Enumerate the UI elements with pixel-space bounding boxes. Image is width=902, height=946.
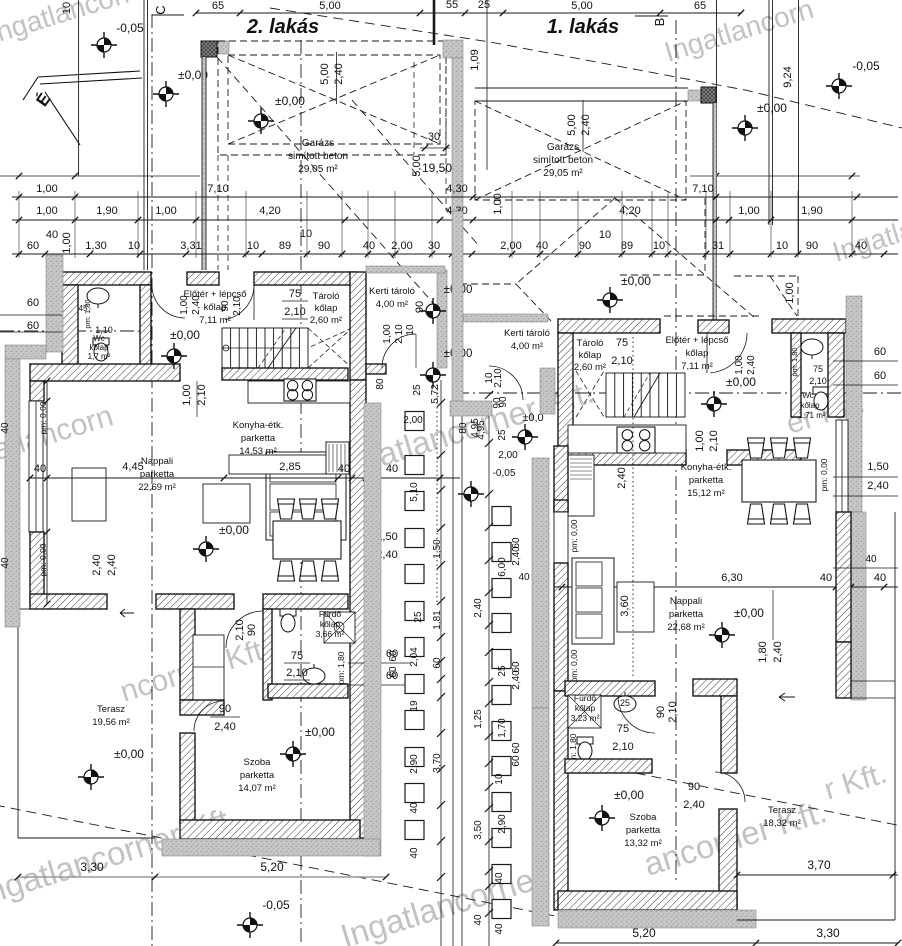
svg-text:40: 40 (46, 229, 58, 241)
svg-text:25: 25 (620, 698, 630, 708)
svg-text:kőlap: kőlap (579, 350, 602, 361)
elevation marker (78, 764, 104, 790)
svg-text:19: 19 (409, 700, 420, 712)
unit2 left wall upper (30, 381, 44, 401)
unit1 kerti gray top (463, 314, 548, 322)
svg-text:pm: 0,00: pm: 0,00 (569, 649, 579, 682)
svg-text:2,85: 2,85 (279, 461, 300, 473)
svg-text:1,00: 1,00 (492, 193, 504, 214)
svg-text:5,72: 5,72 (430, 384, 441, 404)
svg-text:2,10: 2,10 (286, 667, 307, 679)
garage 1 roof overhang dashed lines (516, 198, 615, 284)
svg-text:5,00: 5,00 (319, 0, 340, 12)
garage 1 pillar strip down (712, 103, 714, 320)
svg-text:kőlap: kőlap (575, 703, 596, 713)
svg-text:10: 10 (653, 240, 665, 252)
svg-text:3,66 m²: 3,66 m² (316, 629, 345, 639)
svg-text:90: 90 (219, 703, 231, 715)
svg-text:15,12 m²: 15,12 m² (687, 488, 725, 499)
elevation marker (701, 391, 727, 417)
svg-text:75: 75 (617, 723, 629, 735)
svg-text:25: 25 (478, 0, 490, 11)
svg-text:90: 90 (806, 240, 818, 252)
unit1 sofa (572, 558, 614, 644)
svg-text:55: 55 (446, 0, 458, 11)
elevation marker (826, 73, 852, 99)
unit2 kitchen island (229, 455, 333, 474)
unit2 WC right wall (140, 285, 151, 368)
plot double line x144 (143, 0, 145, 270)
svg-text:60: 60 (27, 320, 39, 332)
dimension row 1 (12, 196, 898, 198)
unit1 left wall gray (532, 458, 549, 708)
svg-text:2,00: 2,00 (403, 415, 423, 426)
svg-text:-0,05: -0,05 (262, 898, 290, 912)
garage 1 corner pillar (701, 87, 716, 103)
dimension row 0 right piece (690, 175, 860, 177)
elevation marker (709, 622, 735, 648)
svg-text:22,68 m²: 22,68 m² (667, 622, 705, 633)
elevation marker (458, 481, 484, 507)
svg-text:30: 30 (428, 240, 440, 252)
unit2 wall below WC (30, 364, 180, 381)
svg-text:2,40: 2,40 (511, 670, 522, 690)
svg-text:Nappali: Nappali (141, 456, 173, 467)
unit2 insulation right (364, 403, 381, 856)
top thick mark (433, 0, 436, 45)
unit2 fridge (326, 442, 349, 474)
svg-text:2,40: 2,40 (580, 114, 592, 135)
svg-text:1,00: 1,00 (734, 355, 745, 375)
svg-text:parketta: parketta (669, 609, 704, 620)
svg-text:40: 40 (494, 872, 505, 884)
svg-text:31: 31 (712, 240, 724, 252)
svg-text:4,95: 4,95 (476, 420, 487, 440)
svg-text:1,09: 1,09 (469, 49, 481, 70)
svg-text:-0,05: -0,05 (493, 468, 516, 479)
garage 2 corner pillar (201, 41, 217, 57)
unit1 gray jog (540, 368, 555, 414)
boundary line top diagonal (270, 8, 902, 128)
elevation marker (280, 741, 306, 767)
svg-text:parketta: parketta (241, 433, 276, 444)
svg-text:10: 10 (247, 240, 259, 252)
unit2 dining chairs top (278, 499, 295, 519)
svg-text:pm: 1,80: pm: 1,80 (336, 651, 346, 684)
elevation marker (237, 912, 263, 938)
svg-text:10: 10 (494, 773, 505, 785)
unit1 kerti door arc (489, 366, 523, 400)
svg-text:2,40: 2,40 (473, 598, 484, 618)
svg-text:10: 10 (128, 240, 140, 252)
svg-text:kőlap: kőlap (89, 343, 109, 352)
unit2 bath bottom wall (268, 684, 348, 698)
unit2 stair block right wall (350, 272, 366, 380)
svg-text:Konyha-étk.: Konyha-étk. (233, 420, 284, 431)
unit1 right wall upper (828, 333, 844, 417)
unit1 bedroom door (715, 772, 745, 802)
svg-text:1,71 m²: 1,71 m² (798, 411, 825, 420)
svg-text:5,00: 5,00 (571, 0, 592, 12)
svg-text:simított beton: simított beton (533, 155, 593, 166)
unit2 stair arrow (222, 347, 300, 349)
svg-text:10: 10 (776, 240, 788, 252)
svg-text:1,00: 1,00 (738, 205, 759, 217)
svg-text:2,04: 2,04 (409, 647, 420, 667)
unit2 bath left wall (263, 609, 272, 700)
unit1 stair hall bottom wall (558, 450, 686, 465)
unit2 bottom wall right segment (156, 594, 234, 609)
svg-text:pm: 0,00: pm: 0,00 (38, 543, 48, 576)
unit2 top wall WC segment (62, 272, 151, 285)
svg-text:9,24: 9,24 (782, 66, 794, 87)
vertical line x716 (716, 0, 718, 255)
svg-text:Előtér + lépcső: Előtér + lépcső (665, 335, 728, 346)
svg-text:6,30: 6,30 (721, 572, 742, 584)
svg-text:7,11 m²: 7,11 m² (199, 315, 231, 326)
svg-text:Tároló: Tároló (313, 291, 340, 302)
svg-text:90: 90 (688, 781, 700, 793)
svg-text:40: 40 (536, 240, 548, 252)
svg-text:2,10: 2,10 (611, 355, 632, 367)
svg-text:25: 25 (497, 429, 508, 441)
unit1 roof overhang dashed above wall (664, 315, 760, 317)
svg-text:3,50: 3,50 (473, 820, 484, 840)
svg-text:±0,00: ±0,00 (726, 375, 756, 389)
unit2 bottom wall left segment (30, 594, 107, 609)
svg-text:90: 90 (220, 300, 231, 312)
svg-text:4,20: 4,20 (619, 205, 640, 217)
svg-text:5,00: 5,00 (319, 63, 331, 84)
unit2 top wall entry segment (187, 272, 219, 285)
svg-text:2,40: 2,40 (214, 721, 235, 733)
svg-text:2,10: 2,10 (232, 296, 243, 316)
svg-text:80: 80 (375, 378, 386, 390)
svg-text:40: 40 (363, 240, 375, 252)
svg-text:3,23 m²: 3,23 m² (571, 713, 600, 723)
svg-text:kőlap: kőlap (686, 348, 709, 359)
svg-text:2,40: 2,40 (333, 63, 345, 84)
svg-text:1,70: 1,70 (497, 718, 508, 738)
svg-text:14,53 m²: 14,53 m² (239, 446, 277, 457)
svg-text:2,10: 2,10 (809, 376, 827, 386)
svg-text:kőlap: kőlap (315, 303, 338, 314)
svg-text:±0,00: ±0,00 (757, 101, 787, 115)
svg-text:4,45: 4,45 (122, 461, 143, 473)
svg-text:1,25: 1,25 (473, 709, 484, 729)
svg-text:Garázs: Garázs (302, 138, 334, 149)
unit2 hall closet (193, 635, 224, 700)
dim 1,09 (486, 0, 488, 170)
dimension row 4 (12, 253, 898, 255)
svg-text:75: 75 (616, 337, 628, 349)
svg-text:pm: 0,00: pm: 0,00 (569, 519, 579, 552)
unit1 left window (554, 512, 568, 563)
elevation marker (420, 298, 446, 324)
svg-text:1,50: 1,50 (867, 461, 888, 473)
svg-text:25: 25 (497, 665, 508, 677)
garage 2 dashed verticals to house (217, 155, 219, 270)
unit1 top wall left segment (558, 319, 660, 333)
party wall gray (443, 40, 463, 58)
unit1 bath toilet (577, 737, 593, 760)
svg-text:2,60 m²: 2,60 m² (310, 315, 342, 326)
svg-text:±0,00: ±0,00 (275, 94, 305, 108)
svg-text:75: 75 (289, 288, 301, 300)
unit2 WC fixtures (87, 288, 109, 308)
unit1 dining chairs bottom (748, 504, 765, 524)
svg-text:3,30: 3,30 (816, 926, 840, 940)
unit2 under-stair storage dashed (308, 328, 352, 368)
svg-text:2,10: 2,10 (394, 324, 405, 344)
svg-text:±0,00: ±0,00 (614, 788, 644, 802)
svg-text:40: 40 (409, 802, 420, 814)
unit2 sideboard (72, 468, 106, 521)
section line B vertical (675, 20, 677, 882)
unit1 living dotted divider (632, 337, 634, 679)
double vertical x769 (768, 0, 770, 225)
unit1 bath shower (568, 695, 601, 728)
svg-text:5,20: 5,20 (260, 860, 284, 874)
unit1 WC fixtures (801, 339, 823, 359)
svg-text:40: 40 (518, 572, 530, 583)
dimension row 2 (12, 219, 898, 221)
svg-text:3,70: 3,70 (807, 858, 831, 872)
svg-text:5,00: 5,00 (566, 114, 578, 135)
unit2 bath toilet (280, 609, 296, 632)
svg-text:89: 89 (279, 240, 291, 252)
section line C vertical (151, 14, 153, 946)
svg-text:90: 90 (579, 240, 591, 252)
unit2 insulation bottom (162, 839, 380, 856)
unit1 middle wall (693, 679, 737, 696)
svg-text:1,50: 1,50 (432, 539, 443, 559)
svg-text:Konyha-étk.: Konyha-étk. (681, 462, 732, 473)
svg-text:±0,00: ±0,00 (621, 274, 651, 288)
svg-text:1. lakás: 1. lakás (547, 16, 619, 38)
svg-text:22,69 m²: 22,69 m² (138, 482, 176, 493)
svg-text:2,10: 2,10 (284, 306, 305, 318)
svg-text:Wc: Wc (93, 334, 105, 343)
svg-text:40: 40 (0, 422, 11, 434)
svg-text:3,60: 3,60 (619, 595, 631, 616)
unit2 top wall middle segment (254, 272, 356, 285)
elevation marker (161, 343, 187, 369)
svg-text:60: 60 (27, 240, 39, 252)
unit2 kerti stub wall (366, 364, 386, 374)
unit1 dining table (742, 460, 816, 502)
bottom row right (556, 942, 898, 944)
svg-text:1,00: 1,00 (36, 183, 57, 195)
unit1 stair block left wall (558, 333, 573, 465)
svg-text:90: 90 (655, 706, 667, 718)
hedge column B (492, 507, 511, 526)
svg-text:14,07 m²: 14,07 m² (238, 783, 276, 794)
garage 1 dim 5,00 2,40 (582, 100, 584, 152)
svg-text:1,00: 1,00 (784, 282, 796, 303)
svg-text:29,05 m²: 29,05 m² (298, 164, 338, 175)
svg-text:10: 10 (599, 229, 611, 241)
svg-text:60: 60 (874, 346, 886, 358)
plot line vertical x78 (78, 0, 80, 176)
garage 2 dim 5,00 2,40 (336, 52, 338, 104)
garage 2 second diagonal (352, 100, 480, 247)
svg-text:kőlap: kőlap (320, 619, 341, 629)
middle chain ticks B (485, 391, 493, 399)
svg-text:parketta: parketta (626, 825, 661, 836)
garage 2 left wall lines (201, 57, 203, 270)
svg-text:Nappali: Nappali (670, 596, 702, 607)
svg-text:B: B (652, 18, 667, 27)
unit1 dim 3,70 (737, 874, 898, 876)
boundary line bottom diagonal (0, 805, 560, 917)
unit2 bath top wall (263, 594, 348, 609)
unit2 left wall lower (30, 532, 44, 604)
unit2 bedroom bottom wall (180, 820, 360, 839)
unit2 bedroom door arc (194, 701, 224, 731)
unit1 bath bottom wall (565, 759, 652, 773)
svg-text:5,10: 5,10 (409, 482, 420, 502)
unit1 side table (617, 582, 654, 632)
dimension row 0 left piece (0, 175, 200, 177)
svg-text:19,56 m²: 19,56 m² (92, 717, 130, 728)
svg-text:4,00 m²: 4,00 m² (511, 341, 543, 352)
unit1 terrace arrow (779, 693, 795, 701)
elevation marker (248, 108, 274, 134)
unit1 top wall right segment (772, 319, 846, 333)
unit2 dining table (273, 521, 341, 559)
svg-text:parketta: parketta (689, 475, 724, 486)
svg-text:2,10: 2,10 (667, 701, 679, 722)
unit1 row 6,30 (554, 586, 898, 588)
svg-text:2,40: 2,40 (91, 554, 103, 575)
garage 2 slab dashed rect (228, 55, 440, 144)
unit1 kitchen counter (568, 425, 686, 453)
unit1 left wall bottom part (554, 691, 568, 910)
svg-text:40: 40 (473, 914, 484, 926)
unit2 side table (203, 484, 250, 523)
unit1 insulation bottom (558, 910, 756, 928)
unit1 left wall (554, 446, 568, 512)
unit1 top wall middle pier (698, 320, 729, 333)
svg-text:pm: 0,00: pm: 0,00 (38, 401, 48, 434)
svg-text:65: 65 (212, 0, 224, 12)
svg-text:1,7 m²: 1,7 m² (88, 352, 111, 361)
svg-text:4,00 m²: 4,00 m² (376, 299, 408, 310)
svg-text:kőlap: kőlap (800, 401, 820, 410)
garage 2 roof diagonals (228, 55, 440, 144)
elevation marker (512, 424, 538, 450)
unit2 kerti top gray (366, 266, 445, 273)
party wall dashed verticals (445, 58, 447, 211)
svg-text:1,00: 1,00 (181, 384, 193, 405)
svg-text:25: 25 (413, 611, 424, 623)
unit1 dining window (836, 420, 848, 512)
svg-text:Szoba: Szoba (244, 757, 272, 768)
unit2 bath shower (324, 612, 355, 643)
elevation marker (153, 81, 179, 107)
svg-text:60: 60 (511, 755, 522, 767)
svg-text:Fürdő: Fürdő (574, 693, 596, 703)
svg-text:90: 90 (492, 397, 503, 409)
north arrow (23, 71, 142, 145)
unit2 left insulation (46, 255, 63, 352)
unit2 hall left wall (180, 609, 195, 700)
svg-text:1,90: 1,90 (801, 205, 822, 217)
svg-text:75: 75 (291, 650, 303, 662)
svg-text:-0,05: -0,05 (116, 21, 144, 35)
middle chain ticks A (437, 399, 445, 407)
svg-text:2,10: 2,10 (493, 368, 504, 388)
svg-text:Terasz: Terasz (97, 704, 125, 715)
svg-text:2,40: 2,40 (867, 480, 888, 492)
unit1 bath basin (614, 692, 636, 712)
unit1 bedroom right wall (719, 809, 737, 910)
svg-text:Garázs: Garázs (547, 142, 579, 153)
unit2 stair break line (268, 328, 296, 368)
elevation marker (732, 115, 758, 141)
unit2 kerti right gray wall (437, 270, 447, 368)
unit2 terrace outline (17, 609, 19, 838)
svg-text:10: 10 (61, 2, 73, 14)
elevation marker (597, 287, 623, 313)
svg-text:2,40: 2,40 (746, 355, 757, 375)
svg-text:2,90: 2,90 (409, 754, 420, 774)
svg-text:90: 90 (246, 624, 258, 636)
svg-text:89: 89 (621, 240, 633, 252)
unit1 left wall lower (554, 563, 568, 691)
svg-text:pm: 0,00: pm: 0,00 (819, 458, 829, 491)
svg-text:2,00: 2,00 (500, 240, 521, 252)
svg-text:75: 75 (813, 364, 823, 374)
svg-text:90: 90 (318, 240, 330, 252)
svg-text:Tároló: Tároló (577, 338, 604, 349)
unit2 bedroom top walls (180, 700, 224, 715)
svg-text:60: 60 (511, 742, 522, 754)
svg-text:6,00: 6,00 (497, 557, 508, 577)
svg-text:4,20: 4,20 (259, 205, 280, 217)
svg-text:Wc: Wc (802, 391, 814, 400)
svg-text:2,60 m²: 2,60 m² (574, 362, 606, 373)
unit2 stairs (222, 328, 308, 368)
elevation marker (91, 32, 117, 58)
svg-text:2,10: 2,10 (196, 384, 208, 405)
unit1 terrace outline (894, 512, 896, 920)
svg-text:2. lakás: 2. lakás (246, 16, 319, 38)
unit1 terrace top wall (836, 642, 851, 698)
unit2 stove (284, 379, 316, 401)
svg-text:1,00: 1,00 (694, 430, 706, 451)
unit1 entry door arc (711, 333, 748, 373)
unit1 kitchen fridge (568, 455, 594, 516)
vertical line x798 (798, 0, 800, 255)
svg-text:4,30: 4,30 (446, 183, 467, 195)
svg-text:65: 65 (694, 0, 706, 12)
svg-text:60: 60 (388, 650, 399, 662)
svg-text:40: 40 (494, 923, 505, 935)
unit2 stair hall bottom wall (222, 368, 348, 380)
svg-text:Kerti tároló: Kerti tároló (504, 328, 550, 339)
svg-text:±0,00: ±0,00 (734, 606, 764, 620)
svg-text:40: 40 (0, 557, 11, 569)
svg-text:40: 40 (338, 463, 350, 475)
unit2 terrace arrow (120, 609, 134, 617)
unit1 wall below entry (727, 450, 801, 465)
svg-text:1,00: 1,00 (36, 205, 57, 217)
svg-text:80: 80 (458, 422, 469, 434)
svg-text:±0,00: ±0,00 (170, 328, 200, 342)
svg-text:18,32 m²: 18,32 m² (763, 818, 801, 829)
